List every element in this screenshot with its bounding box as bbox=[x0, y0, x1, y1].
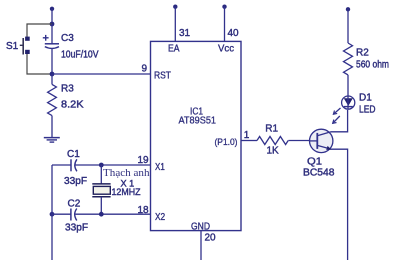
switch S1 bbox=[20, 37, 30, 55]
svg-text:1K: 1K bbox=[267, 146, 280, 157]
svg-text:RST: RST bbox=[154, 70, 171, 81]
crystal X1 12MHZ bbox=[92, 184, 110, 197]
svg-text:D1: D1 bbox=[359, 92, 372, 103]
resistor R1 bbox=[257, 137, 288, 145]
wire crystal bottom branch bbox=[100, 197, 102, 214]
wire R1 to Q1 base bbox=[288, 140, 317, 142]
junction RST node bbox=[50, 72, 55, 77]
svg-text:X2: X2 bbox=[155, 212, 166, 223]
junction X1/crystal bbox=[99, 163, 104, 168]
wire C2 to IC pin 18 bbox=[75, 213, 150, 215]
ground bbox=[44, 138, 60, 143]
svg-text:Vcc: Vcc bbox=[218, 43, 234, 54]
svg-text:AT89S51: AT89S51 bbox=[179, 116, 217, 127]
wire R2 to LED bbox=[347, 75, 349, 96]
svg-text:19: 19 bbox=[138, 155, 150, 166]
wire EA pin 31 bbox=[174, 7, 176, 42]
svg-text:(P1.0): (P1.0) bbox=[215, 137, 238, 147]
wire R2 terminal to resistor bbox=[347, 9, 349, 43]
svg-text:1: 1 bbox=[244, 130, 250, 141]
wire GND pin 20 bbox=[200, 231, 202, 260]
svg-text:EA: EA bbox=[168, 43, 180, 54]
node VCC terminal above C3 bbox=[50, 7, 54, 11]
capacitor C3 bbox=[43, 24, 59, 74]
LED light arrow 1 bbox=[333, 108, 340, 114]
wire X2 left segment bbox=[52, 213, 71, 215]
svg-text:X1: X1 bbox=[155, 162, 165, 173]
capacitor C1 bbox=[71, 159, 77, 171]
junction at top of C3/S1 bbox=[50, 22, 55, 27]
svg-text:40: 40 bbox=[228, 28, 240, 39]
LED D1 bbox=[342, 96, 355, 110]
svg-text:R2: R2 bbox=[356, 47, 369, 58]
wire P1.0 pin 1 stub bbox=[241, 140, 257, 142]
wire S1 bottom to RST junction bbox=[27, 54, 52, 74]
svg-text:560 ohm: 560 ohm bbox=[356, 59, 389, 70]
svg-text:12MHZ: 12MHZ bbox=[112, 187, 141, 198]
wire C1 to IC pin 19 bbox=[76, 164, 151, 166]
wire RST node to IC pin 9 bbox=[52, 73, 151, 75]
svg-text:C3: C3 bbox=[61, 33, 74, 44]
svg-text:8.2K: 8.2K bbox=[61, 100, 84, 111]
wire Vcc pin 40 bbox=[224, 7, 226, 42]
wire VCC terminal to junction bbox=[51, 9, 53, 24]
svg-text:R3: R3 bbox=[61, 84, 74, 95]
svg-text:9: 9 bbox=[142, 64, 148, 75]
svg-text:C2: C2 bbox=[68, 199, 81, 210]
node R2 terminal bbox=[346, 7, 350, 11]
svg-text:R1: R1 bbox=[265, 124, 278, 135]
svg-text:C1: C1 bbox=[67, 149, 80, 160]
svg-text:10uF/10V: 10uF/10V bbox=[61, 50, 99, 61]
svg-text:Thạch anh: Thạch anh bbox=[103, 167, 150, 179]
svg-text:33pF: 33pF bbox=[64, 176, 87, 187]
wire emitter down bbox=[332, 149, 348, 260]
transistor Q1 bbox=[310, 129, 333, 152]
wire left rail down bbox=[51, 165, 53, 260]
wire junction to S1 top bbox=[27, 24, 52, 37]
svg-text:31: 31 bbox=[179, 28, 191, 39]
wire collector to LED bbox=[331, 110, 348, 132]
junction X2 left rail bbox=[50, 212, 55, 217]
op-amp/IC U1 AT89S51 box bbox=[151, 41, 242, 230]
svg-text:20: 20 bbox=[205, 233, 217, 244]
svg-text:BC548: BC548 bbox=[303, 167, 335, 178]
node Vcc terminal bbox=[222, 5, 226, 9]
junction X2/crystal bbox=[99, 212, 104, 217]
node EA terminal bbox=[173, 5, 177, 9]
resistor R2 bbox=[344, 43, 353, 75]
svg-text:33pF: 33pF bbox=[65, 223, 88, 234]
svg-text:18: 18 bbox=[138, 205, 150, 216]
svg-text:S1: S1 bbox=[6, 41, 19, 52]
wire X1 left segment bbox=[52, 164, 71, 166]
LED light arrow 2 bbox=[333, 116, 340, 123]
resistor R3 bbox=[48, 74, 57, 138]
wire crystal top branch bbox=[100, 165, 102, 184]
svg-text:Q1: Q1 bbox=[307, 157, 322, 168]
capacitor C2 bbox=[71, 209, 77, 221]
svg-text:LED: LED bbox=[359, 104, 376, 115]
